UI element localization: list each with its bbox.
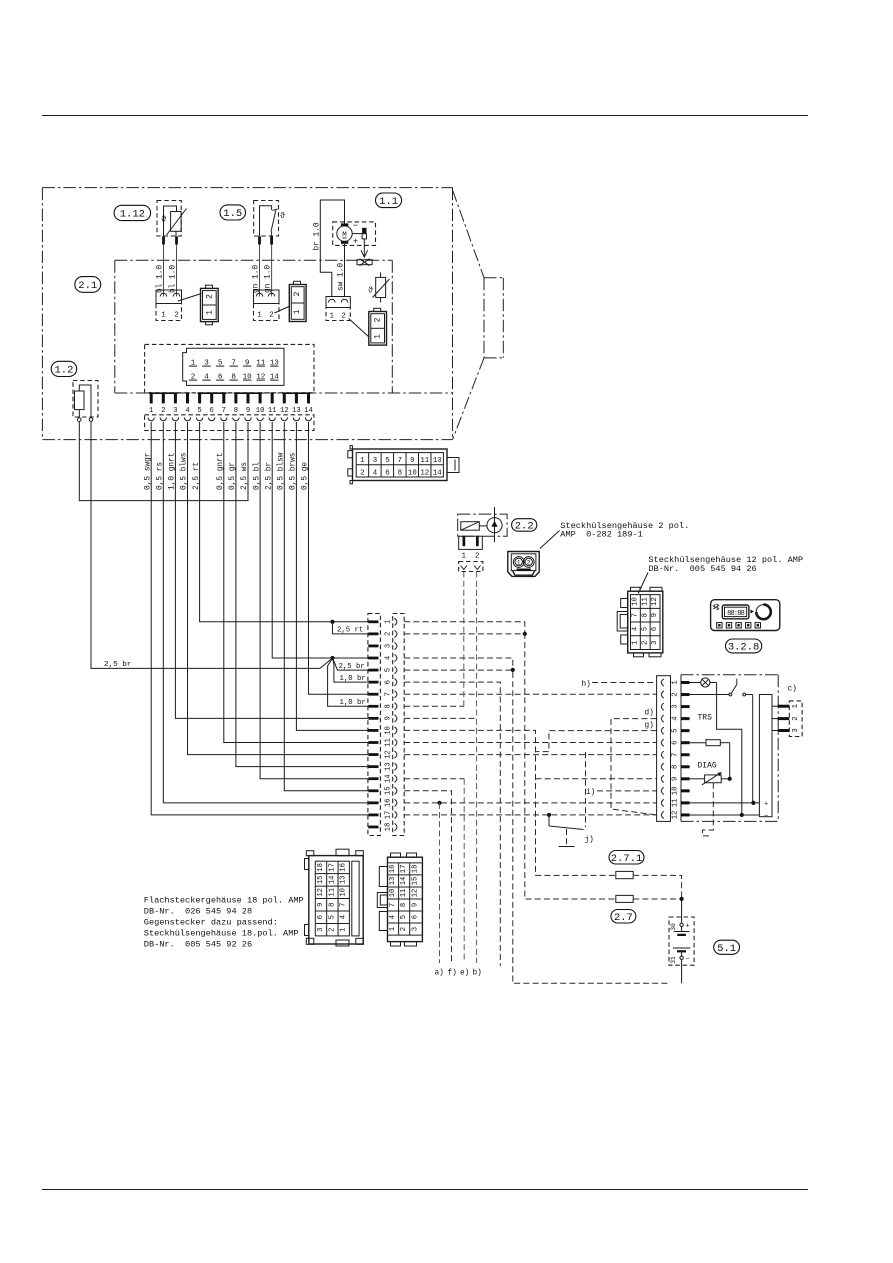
- svg-text:1: 1: [374, 334, 383, 339]
- fuse 2.7.1: [616, 871, 682, 899]
- svg-text:11: 11: [328, 888, 336, 897]
- svg-text:15: 15: [317, 876, 325, 885]
- svg-text:1: 1: [671, 680, 679, 684]
- connector X4 3-pole: [772, 701, 802, 737]
- wire 0,5 gr pin8 to X2 pin13: [236, 422, 368, 767]
- svg-text:11: 11: [641, 597, 649, 606]
- svg-text:88:88: 88:88: [727, 610, 745, 618]
- motor dashed box: [333, 222, 376, 246]
- switch j) contact wire: [585, 752, 587, 827]
- svg-text:1: 1: [360, 457, 365, 465]
- svg-text:11: 11: [268, 407, 277, 415]
- svg-text:2: 2: [384, 632, 392, 636]
- svg-text:7: 7: [222, 407, 226, 415]
- wire 0,5 brws pin13 to X2 pin10: [296, 422, 368, 730]
- junction battery plus: [680, 897, 684, 901]
- housing cavity numbers row 1/2: [189, 359, 279, 381]
- leader line to housing icon: [275, 306, 291, 313]
- wire to X3 pin9: [536, 778, 657, 780]
- svg-text:7: 7: [384, 692, 392, 696]
- svg-text:4: 4: [389, 915, 397, 919]
- svg-text:17: 17: [328, 863, 336, 872]
- svg-text:f): f): [448, 970, 457, 978]
- wire 0,5 gnrt pin7 to X2 pin11: [224, 422, 368, 743]
- svg-text:9: 9: [317, 903, 325, 907]
- flame indicator wire with arrow: [361, 239, 368, 257]
- svg-text:1: 1: [389, 927, 397, 931]
- svg-text:2: 2: [293, 291, 302, 296]
- svg-text:13: 13: [384, 762, 392, 771]
- wire X2 pin10 / fuse 2.7.1 feed: [404, 730, 616, 875]
- svg-text:30: 30: [670, 923, 677, 931]
- wire bl 1.0 (1.12 pin1): [163, 245, 165, 297]
- svg-text:13: 13: [292, 407, 301, 415]
- svg-text:3: 3: [317, 927, 325, 931]
- svg-text:j): j): [585, 837, 594, 845]
- wire branch 1,0 br to X2 pin6: [333, 658, 369, 682]
- svg-text:5: 5: [197, 407, 201, 415]
- svg-text:2: 2: [360, 470, 364, 478]
- wire 1,0 gnrt pin3 to X2 pin9: [175, 422, 368, 718]
- svg-text:9: 9: [671, 777, 679, 781]
- svg-text:1.12: 1.12: [120, 209, 145, 221]
- leader line to housing icon: [349, 319, 370, 338]
- 2-pole housing icon (1.5): [289, 281, 306, 321]
- svg-text:4: 4: [373, 470, 378, 478]
- switch wire to plus rail: [752, 695, 754, 803]
- svg-text:2: 2: [341, 313, 346, 321]
- dosing pump 2.2: [458, 507, 507, 542]
- svg-text:3: 3: [411, 927, 419, 931]
- wire h) to X3 pin1: [592, 682, 657, 684]
- wire X2 pin15 to f): [404, 791, 451, 963]
- svg-text:1: 1: [384, 620, 392, 624]
- svg-text:16: 16: [384, 799, 392, 808]
- wire sw 1.0 (motor ground): [344, 244, 346, 297]
- wire branch 2,5 br to X2 pin5: [333, 658, 369, 670]
- svg-text:2,5 rt: 2,5 rt: [337, 626, 363, 634]
- ground below switch j): [559, 829, 575, 847]
- svg-text:12: 12: [280, 407, 289, 415]
- svg-text:1: 1: [206, 310, 215, 315]
- svg-text:1: 1: [161, 312, 166, 320]
- wire g) S-bend to fuse feed: [536, 731, 657, 752]
- svg-text:3: 3: [384, 644, 392, 648]
- svg-text:a): a): [435, 970, 444, 978]
- connector plug X-motor: [326, 297, 350, 321]
- wire X2 pin11 to X3 pin6: [404, 742, 656, 744]
- bottom page rule: [42, 1189, 808, 1191]
- junction: [523, 632, 527, 636]
- glow plug R21: [352, 228, 366, 239]
- Steckhuelsengehaeuse 18-pol icon: [377, 853, 422, 946]
- svg-text:10: 10: [340, 888, 348, 897]
- svg-text:8: 8: [641, 613, 649, 617]
- svg-text:12: 12: [384, 750, 392, 759]
- svg-text:2,5 br: 2,5 br: [104, 661, 131, 669]
- junction plus rail: [751, 801, 755, 805]
- svg-text:2: 2: [206, 294, 215, 299]
- svg-text:18: 18: [411, 865, 419, 874]
- wire gn 1.0 (1.5 pin2): [271, 245, 273, 297]
- svg-text:1,0 br: 1,0 br: [340, 675, 366, 683]
- wire bl 1.0 (1.12 pin2): [176, 245, 178, 297]
- wire 0,5 swgr pin1 to X2 pin17: [151, 422, 368, 815]
- heater unit outline 1.1: [42, 188, 503, 440]
- 2-pole housing icon (1.12): [201, 285, 219, 325]
- svg-text:17: 17: [400, 865, 408, 874]
- junction j): [547, 813, 551, 817]
- svg-text:2: 2: [671, 692, 679, 696]
- wire X2 pin14 to e): [404, 778, 464, 780]
- svg-text:10: 10: [671, 787, 679, 796]
- svg-text:2: 2: [174, 312, 179, 320]
- svg-text:18: 18: [317, 863, 325, 872]
- svg-text:DB-Nr. 005 545 92 26: DB-Nr. 005 545 92 26: [144, 940, 252, 950]
- junction 2,5 br: [330, 656, 334, 660]
- 12-pin connector X3 socket side: [657, 676, 671, 822]
- svg-text:gn 1.0: gn 1.0: [264, 265, 272, 293]
- svg-text:15: 15: [411, 877, 419, 886]
- pin numbers 1-14: [149, 407, 313, 415]
- indicator lamp: [690, 678, 717, 687]
- X2 pin stubs and numbers: [368, 618, 397, 831]
- svg-text:9: 9: [246, 407, 250, 415]
- svg-text:Gegenstecker dazu passend:: Gegenstecker dazu passend:: [144, 918, 278, 928]
- svg-text:4: 4: [632, 627, 640, 631]
- wire 2,5 ws pin9 to 1.2: [79, 421, 248, 500]
- svg-text:AMP 0-282 189-1: AMP 0-282 189-1: [560, 529, 643, 539]
- svg-text:16: 16: [389, 865, 397, 874]
- junction a): [437, 801, 441, 805]
- svg-text:ϑ: ϑ: [161, 215, 166, 225]
- wire branch 1,0 br to X2 pin8: [328, 658, 368, 706]
- svg-text:sw 1.0: sw 1.0: [337, 263, 345, 291]
- label capsule 2.7.1: [609, 851, 644, 866]
- svg-text:4: 4: [384, 656, 392, 660]
- wire X2 pin17/X3 pin12 row: [404, 814, 656, 816]
- connector part number text: [144, 896, 304, 950]
- svg-text:4: 4: [185, 407, 189, 415]
- label capsule 2.7: [611, 910, 636, 925]
- svg-text:14: 14: [304, 407, 313, 415]
- svg-text:14: 14: [384, 774, 392, 783]
- svg-text:1: 1: [330, 313, 335, 321]
- svg-text:b): b): [473, 970, 482, 978]
- svg-text:5.1: 5.1: [717, 943, 736, 955]
- svg-text:1: 1: [792, 704, 800, 708]
- svg-text:2: 2: [475, 553, 480, 561]
- overheat thermistor: [368, 272, 390, 302]
- wire 2,5 br from 1.2 to X2 pin4 junction: [91, 421, 333, 668]
- control unit box 2.1: [42, 260, 452, 393]
- wire X2 pin8 to pump: [404, 705, 464, 707]
- svg-text:16: 16: [340, 863, 348, 872]
- wire d) vertical to X3 pin12: [611, 719, 657, 815]
- lamp wire to minus rail: [717, 683, 742, 815]
- 14-pole connector housing icon: [348, 446, 459, 484]
- svg-text:1: 1: [257, 312, 262, 320]
- module ground lead: [703, 783, 714, 836]
- wire 0,5 blsw pin12 to X2 pin15: [284, 422, 368, 791]
- svg-text:9: 9: [384, 716, 392, 720]
- svg-text:1: 1: [632, 640, 640, 644]
- label capsule 1.2: [51, 361, 76, 376]
- svg-text:14: 14: [400, 877, 408, 886]
- svg-text:bl 1.0: bl 1.0: [169, 265, 177, 293]
- label capsule 2.2: [512, 519, 537, 533]
- 18-pin connector X2 pin side: [368, 614, 381, 836]
- TRS wire to potentiometer node: [729, 743, 731, 779]
- svg-text:g): g): [645, 722, 654, 730]
- top page rule: [42, 115, 808, 117]
- svg-text:7: 7: [340, 903, 348, 907]
- leader line to housing icon: [178, 294, 202, 302]
- svg-text:12: 12: [317, 888, 325, 897]
- pump connector plug: [459, 536, 483, 571]
- svg-text:9: 9: [411, 903, 419, 907]
- junction minus rail: [740, 813, 744, 817]
- potentiometer DIAG: [690, 772, 730, 785]
- svg-text:7: 7: [632, 613, 640, 617]
- wire X2 pin2 / fuse 2.7 feed: [404, 634, 616, 899]
- svg-text:18: 18: [384, 823, 392, 832]
- svg-text:1.5: 1.5: [223, 208, 242, 220]
- timer control 3.2.8: [711, 600, 780, 631]
- minus rail wire X3 pin12: [690, 813, 769, 821]
- svg-text:17: 17: [384, 811, 392, 820]
- label capsule 1.12: [114, 205, 151, 220]
- svg-text:6: 6: [317, 915, 325, 919]
- svg-text:5: 5: [641, 627, 649, 631]
- svg-text:11: 11: [420, 457, 429, 465]
- svg-text:13: 13: [389, 877, 397, 886]
- svg-text:4: 4: [340, 915, 348, 919]
- svg-text:2: 2: [269, 312, 274, 320]
- module left edge with pin stubs: [681, 675, 690, 822]
- svg-text:2,5 br: 2,5 br: [339, 663, 365, 671]
- svg-text:1: 1: [517, 560, 521, 567]
- wire X2 pin7 to X3 pin2: [404, 693, 656, 695]
- switch 1.5 pin stubs: [258, 236, 273, 244]
- svg-text:8: 8: [328, 903, 336, 907]
- label capsule 1.1: [376, 193, 402, 208]
- svg-text:−: −: [353, 221, 358, 231]
- flame sensor X symbol: [357, 259, 372, 266]
- main switch: [690, 678, 753, 696]
- X3 receptacles and numbers: [661, 679, 679, 819]
- svg-text:11: 11: [400, 889, 408, 898]
- svg-text:2.2: 2.2: [515, 521, 534, 533]
- svg-text:3.2.8: 3.2.8: [728, 642, 760, 654]
- junction: [511, 668, 515, 672]
- svg-text:9: 9: [410, 457, 414, 465]
- svg-text:8: 8: [400, 903, 408, 907]
- svg-text:+: +: [353, 237, 358, 247]
- svg-text:3: 3: [651, 640, 659, 644]
- svg-text:6: 6: [210, 407, 214, 415]
- svg-text:−: −: [686, 955, 690, 963]
- svg-text:11: 11: [671, 799, 679, 808]
- wire i) to X3 pin10: [597, 790, 657, 792]
- svg-text:9: 9: [651, 613, 659, 617]
- leader line to 2-pol housing icon: [540, 531, 560, 549]
- svg-text:2.7.1: 2.7.1: [611, 853, 643, 865]
- svg-text:13: 13: [433, 457, 442, 465]
- svg-text:6: 6: [385, 470, 389, 478]
- pump wire b): [476, 572, 478, 964]
- svg-text:2: 2: [792, 716, 800, 720]
- svg-text:c): c): [788, 686, 797, 694]
- svg-text:Flachsteckergehäuse 18 pol. AM: Flachsteckergehäuse 18 pol. AMP: [144, 896, 304, 906]
- output stage block: [759, 695, 772, 817]
- svg-text:7: 7: [398, 457, 402, 465]
- svg-text:10: 10: [256, 407, 265, 415]
- svg-text:5: 5: [385, 457, 389, 465]
- leader line to 12-pol icon: [638, 573, 648, 594]
- svg-text:2: 2: [527, 560, 531, 567]
- wire e) lower: [463, 779, 465, 963]
- svg-text:2: 2: [374, 317, 383, 322]
- pump wire e): [463, 572, 465, 707]
- svg-text:8: 8: [234, 407, 238, 415]
- svg-text:M: M: [342, 232, 347, 240]
- wire 0,5 bl pin10 to X2 pin14: [260, 422, 368, 779]
- svg-text:12: 12: [671, 811, 679, 820]
- svg-text:+: +: [764, 801, 768, 809]
- svg-text:4: 4: [671, 716, 679, 720]
- wire 0,5 blws pin4 to X2 pin12: [188, 422, 369, 755]
- 18-pin connector X2 socket side: [393, 614, 405, 836]
- wire 2,5 rt pin5 to X2 pin1: [200, 422, 368, 622]
- svg-text:12: 12: [411, 889, 419, 898]
- svg-text:3: 3: [671, 704, 679, 708]
- footnote labels a) f) e) b): [435, 970, 482, 978]
- svg-text:2.7: 2.7: [614, 912, 633, 924]
- svg-text:10: 10: [384, 726, 392, 735]
- 12-pole AMP connector icon: [617, 587, 663, 657]
- svg-text:10: 10: [632, 597, 640, 606]
- svg-text:DB-Nr. 005 545 94 26: DB-Nr. 005 545 94 26: [648, 564, 756, 574]
- wire 0,5 ge pin14 to X2 pin7: [309, 422, 369, 694]
- svg-text:12: 12: [651, 597, 659, 606]
- svg-text:5: 5: [671, 728, 679, 732]
- connector plug X1.12: [156, 290, 182, 321]
- svg-text:2: 2: [641, 640, 649, 644]
- svg-text:12: 12: [420, 470, 429, 478]
- text Steckhuelsengehaeuse 2 pol: [560, 521, 689, 539]
- svg-text:14: 14: [328, 876, 336, 885]
- Flachsteckergehaeuse 18-pol icon: [305, 849, 364, 946]
- svg-text:8: 8: [398, 470, 402, 478]
- resistor TRS: [690, 740, 730, 746]
- wire X2 pin1 to node: [404, 622, 525, 634]
- svg-text:br 1.0: br 1.0: [314, 222, 322, 250]
- svg-text:31: 31: [670, 956, 677, 964]
- svg-text:5: 5: [384, 668, 392, 672]
- connector plug X1.5: [254, 290, 280, 321]
- wire X2 pin12 to X3 pin7: [404, 754, 656, 756]
- svg-text:2: 2: [400, 927, 408, 931]
- component 1.2: [73, 381, 98, 422]
- 2-pole housing icon (motor): [369, 308, 387, 345]
- label capsule 1.5: [220, 205, 246, 220]
- svg-text:ϑ: ϑ: [280, 211, 285, 221]
- receptacle strip: [145, 415, 314, 431]
- svg-text:10: 10: [408, 470, 417, 478]
- switch j): [549, 815, 584, 830]
- text Steckhuelsengehaeuse 12 pol: [648, 555, 803, 574]
- wire X2 pin16 to X3 pin11: [404, 802, 656, 804]
- svg-text:ϑ: ϑ: [368, 286, 373, 296]
- junction potentiometer: [728, 777, 732, 781]
- svg-text:6: 6: [384, 680, 392, 684]
- svg-text:1,0 br: 1,0 br: [340, 699, 366, 707]
- motor M1: [337, 221, 358, 247]
- svg-text:1: 1: [462, 553, 467, 561]
- svg-text:5: 5: [328, 915, 336, 919]
- svg-text:3: 3: [173, 407, 177, 415]
- module outline: [681, 675, 778, 822]
- label capsule 2.1: [75, 277, 101, 293]
- svg-text:1.2: 1.2: [54, 365, 73, 377]
- battery 5.1: [669, 899, 694, 983]
- svg-text:2: 2: [328, 927, 336, 931]
- temperature switch 1.5: [254, 201, 285, 237]
- svg-text:2.1: 2.1: [78, 280, 97, 292]
- svg-text:i): i): [586, 789, 595, 797]
- svg-text:h): h): [582, 681, 591, 689]
- wire 2,5 br pin11 to X2 pin4: [272, 422, 368, 658]
- fuse 2.7: [616, 895, 682, 902]
- wire br 1.0 (motor supply): [320, 200, 344, 297]
- svg-text:1: 1: [340, 927, 348, 931]
- wire 0,5 rs pin2 to X2 pin16: [163, 422, 368, 803]
- svg-text:Steckhülsengehäuse 18.pol. AMP: Steckhülsengehäuse 18.pol. AMP: [144, 929, 299, 939]
- ECU 14-pin connector outline: [145, 344, 314, 392]
- svg-text:d): d): [645, 710, 654, 718]
- svg-text:+: +: [686, 922, 690, 930]
- temperature sensor 1.12: [157, 201, 187, 237]
- svg-text:11: 11: [384, 738, 392, 747]
- 2-pole housing icon AMP: [508, 552, 539, 577]
- svg-text:13: 13: [340, 876, 348, 885]
- svg-text:6: 6: [411, 915, 419, 919]
- wire X2 pin6: [404, 682, 500, 966]
- wire X2 pin4 to node: [404, 658, 513, 670]
- svg-text:DIAG: DIAG: [698, 762, 717, 771]
- svg-text:6: 6: [671, 741, 679, 745]
- wire branch 2,5 rt to X2 pin2: [333, 622, 369, 634]
- svg-text:3: 3: [792, 728, 800, 732]
- wire a): [439, 803, 441, 963]
- svg-text:e): e): [460, 970, 469, 978]
- svg-text:8: 8: [384, 704, 392, 708]
- 14-pin housing rear view: [183, 348, 284, 385]
- svg-text:8: 8: [671, 765, 679, 769]
- svg-text:6: 6: [651, 627, 659, 631]
- svg-text:1: 1: [293, 309, 302, 314]
- svg-text:3: 3: [373, 457, 377, 465]
- connector pin blades 1-14: [149, 392, 311, 403]
- wire X2 pin5 / battery minus feed: [404, 670, 669, 983]
- label capsule 3.2.8: [726, 639, 762, 654]
- svg-text:5: 5: [400, 915, 408, 919]
- svg-text:2: 2: [161, 407, 165, 415]
- sensor 1.12 pin stubs: [162, 236, 178, 244]
- svg-text:7: 7: [671, 753, 679, 757]
- svg-text:bl 1.0: bl 1.0: [156, 265, 164, 293]
